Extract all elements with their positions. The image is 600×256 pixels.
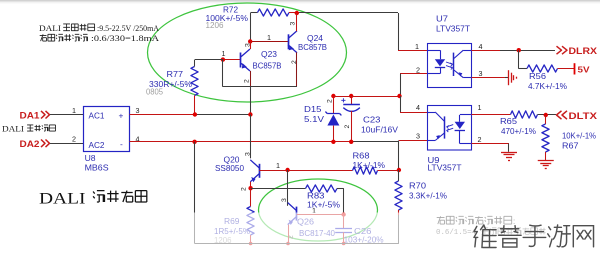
capacitor C23 [351,96,353,104]
resistor R56 [527,65,558,72]
junction Q20 emitter R69 R83 [248,186,252,190]
svg-text:BC857B: BC857B [298,42,327,52]
svg-text:5V: 5V [578,65,590,75]
svg-text::: : [513,217,515,226]
svg-text:3: 3 [136,106,140,115]
U9 internal phototransistor [444,116,446,138]
wire U7 pin2 to zener rail [400,73,427,75]
junction D15 top [331,94,335,98]
svg-text:DALI: DALI [39,190,86,207]
wire Q23 base to Q24 base [223,59,241,61]
junction R68 R70 minus net [397,168,401,172]
junction R77 bottom on plus rail [193,112,197,116]
wire R77 top [194,60,196,67]
svg-text:2: 2 [327,99,334,103]
svg-text:0805: 0805 [146,86,163,96]
resistor R70 [395,181,402,210]
wire U7 pin3 to ground [472,77,506,79]
top border line [0,0,600,2]
svg-text:10uF/16V: 10uF/16V [361,125,398,135]
svg-text:R56: R56 [529,71,546,81]
wire DA1 to U8 pin1 [50,114,84,116]
svg-text:U7: U7 [436,14,448,24]
bridge rectifier U8 box [84,107,130,152]
U7 internal phototransistor [453,53,455,76]
svg-text:-: - [120,139,123,149]
svg-text:1: 1 [276,161,280,170]
wire bus plus rail [130,114,195,116]
wire R69 top lead [250,188,252,206]
wire R69 bottom lead [250,235,252,244]
highlight ellipse around current mirror Q23 Q24 [148,3,347,102]
junction C23 top [349,94,353,98]
svg-text:MB6S: MB6S [85,163,109,173]
optocoupler U9 box [428,106,472,151]
svg-text:4: 4 [416,103,420,112]
junction C23 bottom [349,140,353,144]
wire R70 top lead [398,170,400,181]
transistor Q20 [259,164,261,178]
note output overcurrent protection [437,216,445,224]
wire zener plus rail [333,96,400,98]
watermark text weipu shouyou wang [474,225,594,248]
junction C26 bottom rail [342,242,346,246]
wire Q26 emitter [288,225,290,244]
svg-text:+: + [119,111,124,121]
svg-text:470+/-1%: 470+/-1% [501,126,537,136]
transistor Q26 [296,207,298,221]
svg-text:R70: R70 [409,180,426,190]
svg-text:DLTX: DLTX [569,111,598,122]
wire mirror bottom rail [223,86,297,88]
wire R70 bottom lead [398,210,400,215]
wire bottom return loop [194,142,196,244]
junction zener rail right [397,94,401,98]
wire R56 branch [518,50,520,69]
svg-text:DALI: DALI [2,124,24,133]
wire U9 pin1 to R65 [472,114,511,116]
svg-text:4: 4 [479,42,483,51]
watermark fade band [0,213,600,250]
ground U7 pin3 rotated [508,70,510,85]
svg-text:2: 2 [244,79,251,83]
resistor R77 [191,67,198,96]
wire emitter to R83 [251,188,288,190]
ground R67 [538,160,554,162]
svg-text:D15: D15 [304,104,322,114]
svg-text:4.7K+/-1%: 4.7K+/-1% [528,81,568,91]
wire minus rail corner down [398,141,400,171]
power port 5V [574,63,576,74]
resistor R65 [511,111,538,118]
svg-text:3: 3 [416,132,420,141]
svg-text:3: 3 [290,22,297,26]
svg-text:2: 2 [344,125,351,129]
junction Q20 base Q26 collector [285,168,289,172]
wire DA2 to U8 pin2 [50,143,84,145]
resistor R67 [542,124,549,152]
junction Q20 collector feed [248,112,252,116]
svg-text:1K+/-1%: 1K+/-1% [353,160,386,170]
wire mirror rail to bus plus [250,87,252,115]
U9 internal light arrows [447,125,454,129]
svg-text:Q23: Q23 [261,49,277,59]
wire R67 top [545,115,547,124]
svg-text:2: 2 [478,135,482,144]
port DLTX [557,111,562,119]
optocoupler U7 box [428,44,472,88]
wire R72 left lead down to mirror node [250,13,252,41]
port DLRX [557,46,562,54]
svg-text:DA1: DA1 [20,110,40,120]
wire Q20 emitter junction [250,182,252,188]
svg-text:1: 1 [222,49,226,58]
junction R83 C26 Q26 base [341,212,345,216]
wire R83 right lead [337,188,344,190]
wire U7 pin4 to DLRX [472,50,501,52]
svg-text:3: 3 [281,198,288,202]
svg-text:1206: 1206 [206,20,224,30]
svg-text:0.6/1.5=4: 0.6/1.5=4 [436,229,476,237]
junction R69 bottom rail [249,242,253,246]
svg-text:1: 1 [478,103,482,112]
svg-text:BC857B: BC857B [253,61,282,71]
wire Q24 emitter down [296,52,298,86]
wire Q23 emitter to mirror rail [250,71,252,87]
svg-text:DA2: DA2 [20,139,40,149]
svg-text:AC1: AC1 [89,111,105,121]
svg-text:1: 1 [72,106,76,115]
svg-text:3: 3 [245,43,252,47]
U7 internal light arrows [446,62,453,66]
resistor R68 [353,167,378,174]
U9 internal LED [460,114,472,116]
svg-text:10K+/-1%: 10K+/-1% [562,130,597,140]
svg-text:C23: C23 [363,115,381,125]
wire R72 right to U7 pin1 net [289,12,297,14]
svg-text:2: 2 [241,187,248,191]
svg-text:DALI: DALI [39,24,61,33]
svg-text:3: 3 [479,69,483,78]
wire Q26 base [297,214,344,216]
junction minus rail to bottom loop [192,140,196,144]
wire R67 bottom [545,152,547,160]
svg-text:AC2: AC2 [89,140,105,150]
svg-text::0.6/330=1.8mA: :0.6/330=1.8mA [91,34,159,43]
svg-text:LTV357T: LTV357T [436,24,470,34]
junction D15 bottom [331,140,335,144]
highlight ellipse around Q26 R83 protection [259,179,378,241]
note line2 interface input current [40,34,47,41]
junction Q23 base R77 [221,57,225,61]
wire Q26 collector riser [287,170,289,206]
ground U9 pin2 [501,152,517,154]
wire U9 pin2 to ground [472,143,510,145]
svg-text:DLRX: DLRX [569,46,598,57]
svg-text:R67: R67 [562,141,579,151]
resistor R69 [247,207,254,236]
svg-text:3.3K+/-1%: 3.3K+/-1% [409,190,448,200]
svg-text:LTV357T: LTV357T [428,162,462,172]
wire bus minus rail [130,141,352,143]
wire Q20 collector [250,115,252,159]
svg-text:1: 1 [415,42,419,51]
junction node R72 Q24 collector [295,11,299,15]
junction R65 R67 [544,113,548,117]
svg-text:3: 3 [244,152,251,156]
svg-text:R68: R68 [353,150,370,160]
wire R77 bottom [194,96,196,115]
junction DLRX R56 [517,48,521,52]
transistor Q23 [240,53,242,68]
wire R56 to 5V [558,68,575,70]
resistor R83 [306,185,338,192]
svg-text:4: 4 [136,134,140,143]
zener diode D15 [333,96,335,114]
transistor Q24 [288,34,290,49]
wire R65 to DLTX [538,114,557,116]
wire R68 right [378,170,399,172]
svg-text:R65: R65 [500,116,517,126]
junction Q26 emitter rail [286,242,290,246]
svg-text:R77: R77 [167,69,184,79]
svg-text:2: 2 [72,134,76,143]
capacitor C26 [343,215,345,229]
resistor R72 [258,9,290,16]
svg-text:5.1V: 5.1V [304,114,324,124]
svg-text:SS8050: SS8050 [215,163,244,173]
wire Q24 collector up [296,13,298,31]
wire U9 pin4 feed [400,96,402,112]
wire Q20 base to R68 [259,170,287,172]
junction R72 Q23 top [248,39,252,43]
svg-text:1: 1 [267,33,271,42]
svg-text::9.5-22.5V /250mA: :9.5-22.5V /250mA [97,24,159,33]
U7 internal LED [427,50,440,52]
